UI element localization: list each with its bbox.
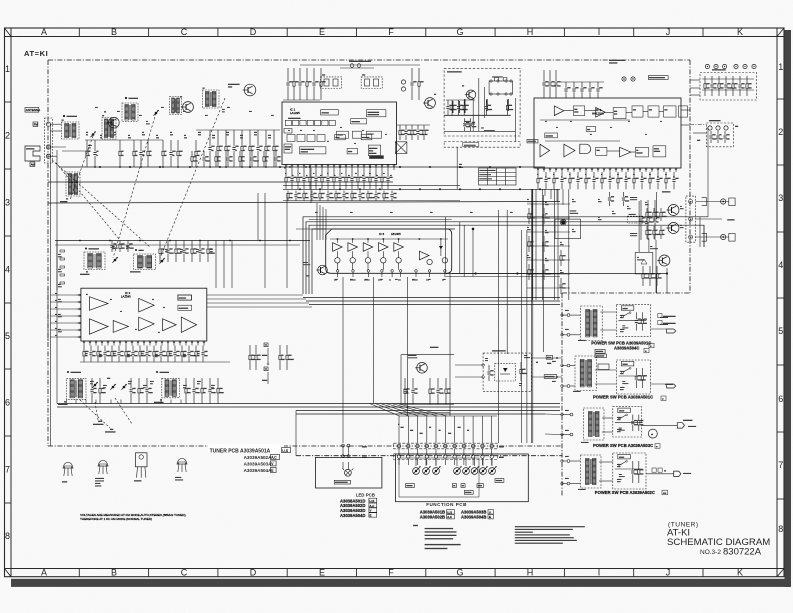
terminal (46, 122, 50, 126)
mute circuit box (347, 149, 358, 154)
capacitor (129, 378, 135, 404)
svg-text:A3039A502A: A3039A502A (244, 455, 273, 460)
resistor (641, 368, 647, 388)
capacitor (202, 151, 209, 167)
resistor (569, 172, 575, 189)
junction dots bus 189 (299, 188, 301, 190)
svg-text:A3039A504B: A3039A504B (461, 515, 486, 520)
capacitor (411, 378, 417, 405)
svg-text:F: F (388, 27, 394, 37)
grid letters (41, 27, 743, 577)
phono jack R (721, 234, 726, 239)
svg-text:4: 4 (5, 265, 10, 275)
adjacent limiter box (321, 110, 339, 115)
capacitor (173, 346, 179, 363)
block2 left pins (567, 364, 570, 367)
PL2 aux dashed box (707, 123, 734, 147)
capacitor (166, 241, 173, 263)
capacitor (145, 378, 152, 404)
wire loop C (309, 225, 700, 294)
capacitor (187, 346, 195, 363)
wire (531, 189, 533, 300)
resistor (367, 191, 375, 202)
wire (51, 308, 77, 310)
connector band tuner side (394, 443, 498, 449)
resistor (175, 241, 182, 263)
wire (49, 146, 67, 148)
svg-text:LA1235: LA1235 (290, 111, 300, 115)
block4 right small boxes (652, 468, 656, 472)
pot center dots (415, 470, 417, 472)
svg-text:A: A (41, 568, 47, 578)
resistor (111, 346, 117, 363)
wires through PL5 (455, 364, 483, 366)
svg-text:1: 1 (5, 64, 10, 74)
resistor (147, 140, 152, 167)
power transformer (589, 412, 600, 437)
svg-text:A3039A504D: A3039A504D (340, 513, 365, 518)
capacitor (110, 241, 117, 253)
fan labels (398, 424, 400, 425)
label dot (67, 371, 69, 373)
loop bottom horizontals (446, 273, 668, 275)
loop junction dots (472, 228, 475, 231)
wire (527, 259, 570, 261)
potentiometer (471, 466, 479, 474)
comparator (363, 243, 373, 252)
resistor (646, 208, 652, 221)
potentiometer (454, 466, 462, 474)
block1 wires (600, 311, 616, 313)
mute component box (635, 252, 653, 274)
resistor (60, 266, 65, 268)
power block pin smears (565, 310, 569, 311)
capacitor (390, 191, 396, 202)
IC2 internal smears (545, 121, 547, 122)
wire (527, 231, 570, 233)
capacitor (374, 191, 380, 202)
capacitor (710, 76, 716, 96)
capacitor (314, 170, 320, 189)
capacitor (302, 170, 308, 189)
capacitor (312, 68, 318, 100)
resistor (601, 172, 607, 189)
LED PCB outline (316, 457, 382, 488)
resistor (333, 170, 339, 189)
REL MUTE label (662, 191, 670, 192)
resistor (60, 258, 65, 260)
capacitor (564, 82, 570, 98)
IC2 pin stubs bottom (537, 168, 539, 172)
wire (85, 400, 87, 404)
wire (95, 400, 97, 404)
wire (51, 329, 77, 331)
potentiometer (433, 466, 441, 474)
capacitor (386, 170, 392, 189)
AC motor symbol (648, 429, 657, 438)
capacitor (544, 172, 550, 189)
block2 sel box (598, 364, 609, 370)
coil row labels (90, 381, 94, 382)
power block inner smears (620, 315, 625, 316)
wire (568, 189, 570, 300)
capacitor (624, 172, 630, 189)
resistor (638, 415, 644, 431)
svg-text:D: D (250, 27, 257, 37)
svg-text:FM: FM (34, 122, 39, 126)
wires from IC2 to output (544, 189, 546, 196)
block4 connector (674, 471, 681, 476)
resistor (660, 226, 665, 239)
capacitor (169, 140, 175, 167)
resistor (177, 140, 183, 167)
wire (120, 400, 122, 404)
switch symbol (623, 369, 629, 373)
ripple filter cluster wires (401, 354, 454, 356)
svg-text:A,C: A,C (370, 504, 375, 508)
svg-text:A3039A503A: A3039A503A (244, 461, 273, 466)
IC3 internal smears (86, 294, 88, 295)
resistor (445, 378, 451, 405)
wire (283, 99, 320, 101)
wire (303, 297, 560, 299)
capacitor (559, 278, 565, 294)
capacitor (622, 192, 629, 206)
capacitor (256, 130, 262, 167)
switch symbol (620, 415, 626, 419)
IC6 bottom wire right (452, 272, 560, 274)
transistor Q7 (415, 363, 427, 374)
wire (51, 301, 77, 303)
op-amp U2 IC2 outline (534, 98, 681, 168)
wire (66, 400, 68, 404)
front-end down verticals (257, 193, 259, 241)
wire (51, 336, 77, 338)
wire (231, 241, 233, 289)
svg-text:E: E (370, 513, 372, 517)
svg-text:A3039A504A: A3039A504A (244, 468, 273, 473)
left of IC3 labels (58, 254, 61, 255)
IC1 pin stubs bottom (285, 165, 287, 171)
capacitor (126, 241, 133, 253)
op-amp I (139, 298, 154, 312)
svg-text:ANTENNA: ANTENNA (26, 108, 40, 112)
svg-text:THEREFORE AT 1 KC AM MODE (NO: THEREFORE AT 1 KC AM MODE (NORMAL TUNED) (80, 517, 152, 521)
NOTE block (413, 525, 418, 526)
capacitor (548, 70, 555, 98)
svg-text:K: K (737, 568, 743, 578)
capacitor (416, 125, 423, 140)
resistor (185, 378, 191, 404)
wire (557, 189, 559, 300)
test point TP (401, 80, 405, 84)
resistor (528, 264, 534, 280)
diagonal feeds (370, 404, 400, 417)
am box inner labels (464, 121, 470, 122)
block1 right small boxes (658, 313, 662, 317)
loop area labels (315, 212, 318, 213)
discriminator cluster (395, 142, 407, 154)
PL5 dashed box (483, 353, 531, 391)
OUT PUT label (727, 219, 734, 220)
trimmer capacitor (90, 132, 95, 138)
op-amp F (89, 297, 108, 311)
trimmer capacitor (112, 257, 117, 263)
IC3 left boundary wire (47, 288, 49, 341)
resistor (320, 68, 326, 100)
quad det box (335, 135, 346, 140)
left vertical wire (56, 150, 58, 404)
capacitor (145, 346, 151, 363)
capacitor (723, 131, 729, 143)
connector pin circles on pcb edge (561, 314, 564, 317)
wire (446, 99, 475, 101)
resistor (279, 345, 285, 370)
transistor Q1 (107, 117, 119, 128)
resistor (215, 151, 221, 167)
AMP UNIT bracket (25, 146, 40, 161)
resistor (265, 130, 271, 167)
resistor (138, 378, 144, 404)
resistor (451, 100, 457, 115)
capacitor (542, 264, 550, 280)
junction dots on ground bus (94, 166, 96, 168)
IF amplifier label (288, 118, 301, 119)
resistor (335, 191, 342, 202)
alignment dashed lines (80, 400, 110, 428)
tuning gang dashed diagonals (113, 113, 156, 258)
separate det box (351, 119, 367, 124)
FM CENTER VOLTAGE label (349, 61, 371, 62)
capacitor (588, 82, 594, 98)
IC6 area smears (335, 279, 338, 280)
svg-text:3: 3 (5, 198, 10, 208)
capacitor (580, 82, 586, 98)
resistor (167, 346, 173, 363)
resistor (537, 172, 543, 189)
PL2 pads (708, 126, 712, 130)
trimmer capacitor (110, 384, 115, 390)
svg-text:2: 2 (778, 127, 783, 137)
wire (397, 124, 430, 126)
power transformer (586, 459, 597, 485)
resistor (297, 170, 303, 189)
AM section top wire (55, 240, 310, 242)
resistor (528, 208, 535, 224)
wire (85, 139, 163, 141)
switch symbol (620, 462, 626, 466)
IC1 second row boxes (287, 135, 295, 142)
package 2SK49 (62, 463, 73, 477)
transformer T2 (102, 115, 116, 139)
wire (51, 322, 77, 324)
frequency table (479, 168, 517, 185)
front end labels (88, 145, 92, 146)
op-amp D (564, 144, 575, 157)
PL4 dashed box (627, 216, 643, 223)
capacitor (326, 191, 333, 202)
capacitor (487, 365, 493, 381)
op-amp M (419, 251, 429, 260)
resistor (423, 125, 429, 140)
capacitor (672, 172, 678, 189)
lamp rays (343, 469, 345, 471)
svg-text:5: 5 (778, 326, 783, 336)
bundle verticals to audio (498, 210, 500, 443)
svg-text:I: I (598, 568, 601, 578)
af level mute control box (368, 145, 380, 156)
capacitor (350, 170, 356, 189)
svg-text:POWER SW PCB A3039A501C: POWER SW PCB A3039A501C (593, 395, 653, 400)
IC3 left pins (76, 294, 81, 296)
choke transformer T11 (489, 81, 512, 94)
svg-text:U,S: U,S (447, 510, 452, 514)
capacitor (463, 118, 470, 131)
IC3 pin stubs (83, 341, 85, 346)
PL5 inner diode (503, 368, 508, 372)
capacitor (250, 151, 258, 167)
IC2 right wires (681, 109, 690, 111)
2 stage atten label (570, 210, 577, 211)
capacitor (286, 68, 292, 100)
wire (693, 132, 707, 134)
wire (296, 413, 545, 415)
capacitor (640, 172, 646, 189)
op-amp H (113, 321, 128, 333)
wire stub labels right column (660, 317, 668, 318)
capacitor (93, 140, 98, 167)
verticals IC6 pins down (342, 277, 344, 443)
svg-text:V: V (370, 509, 372, 513)
svg-text:D: D (250, 568, 257, 578)
transformer winding labels (578, 340, 586, 341)
resistor (303, 191, 309, 202)
jack R (702, 233, 707, 241)
wire (283, 200, 460, 202)
block4 wires (599, 461, 613, 463)
POWER boxed label (621, 306, 634, 310)
long verticals to function pcb (530, 189, 532, 443)
wire (196, 129, 280, 131)
bus wire (48, 181, 393, 183)
capacitor (358, 191, 364, 202)
resistor (633, 172, 639, 189)
svg-text:A3039A502B: A3039A502B (420, 515, 445, 520)
capacitor (724, 76, 732, 96)
wire (656, 274, 658, 294)
resistor (646, 226, 652, 239)
comparator (333, 243, 343, 252)
capacitor (404, 125, 411, 140)
phono jack L (721, 199, 726, 204)
resistor (321, 170, 327, 189)
power sw pcb 3 relay dashed box (613, 407, 642, 437)
capacitor (542, 208, 549, 224)
alignment dashed line (52, 160, 150, 247)
wire (527, 245, 570, 247)
dial lamp (345, 469, 352, 476)
IC1 internal smears (288, 130, 290, 131)
cond amp box (352, 131, 361, 138)
svg-text:FUNCTION PCB: FUNCTION PCB (426, 502, 467, 507)
wire (541, 189, 543, 300)
STEREO label (495, 479, 504, 483)
capacitor (576, 172, 582, 189)
capacitor (635, 368, 643, 388)
comparator (394, 243, 404, 252)
transformer T3 (122, 103, 138, 122)
power transformer (586, 310, 597, 337)
resistor (560, 250, 566, 266)
capacitor (208, 130, 214, 167)
block3 wires (602, 417, 613, 419)
resistor (125, 346, 132, 363)
connector band function side (394, 454, 498, 460)
label above (430, 347, 438, 348)
svg-text:E: E (319, 568, 325, 578)
capacitor (338, 170, 344, 189)
capacitor (469, 118, 476, 131)
resistor (255, 345, 261, 370)
block1 left pins (567, 314, 570, 317)
resistor (649, 172, 655, 189)
atten box (555, 219, 580, 239)
lower bus group (57, 403, 560, 405)
wire (527, 273, 570, 275)
ceramic filter CF2 (361, 77, 382, 89)
resistor (241, 130, 247, 167)
comparator (348, 243, 358, 252)
capacitor (560, 172, 566, 189)
s meter drive box (178, 295, 192, 300)
resistor (263, 151, 269, 167)
capacitor (631, 461, 638, 483)
loops above IC6 (309, 219, 452, 221)
wire (75, 400, 77, 404)
resistor (617, 172, 623, 189)
capacitor (294, 191, 301, 202)
resistor (656, 266, 662, 286)
clipper box (337, 131, 349, 138)
transformer T9 (162, 378, 180, 398)
op-amp U1 IC1 LA1235 outline (282, 102, 397, 165)
transistor Q8 (667, 205, 680, 216)
front end label row (86, 132, 88, 133)
MPX freq adjust pads (648, 76, 668, 80)
svg-text:NO.3-2: NO.3-2 (700, 549, 721, 556)
am mid labels (112, 246, 115, 247)
voltage selector label (595, 350, 605, 354)
resistor (411, 125, 417, 140)
POWER boxed label (621, 362, 634, 366)
resistor (285, 170, 291, 189)
block4 left pins (567, 460, 570, 463)
mute cluster (637, 248, 667, 280)
AM box bus (444, 114, 511, 116)
svg-text:G: G (456, 568, 463, 578)
svg-text:H: H (527, 568, 534, 578)
resistor (99, 378, 106, 404)
resistor (97, 346, 103, 363)
block2 wires (595, 369, 617, 371)
wire loop A (303, 217, 700, 294)
resistor (653, 226, 660, 239)
ceramic filter CF1 (321, 77, 342, 89)
af lead out box (361, 135, 372, 140)
scan shadow bottom (11, 579, 790, 587)
capacitor (653, 200, 659, 240)
svg-text:I: I (598, 27, 601, 37)
